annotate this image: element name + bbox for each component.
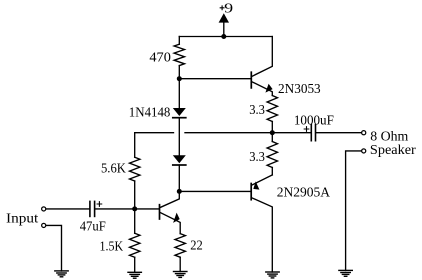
junction: supply tap xyxy=(221,34,226,39)
wire: C1 to node C xyxy=(95,208,134,210)
svg-text:9: 9 xyxy=(224,1,233,16)
node C (C1/5.6K/1.5K/Q2 base) xyxy=(132,206,137,211)
supply +9 xyxy=(219,1,234,36)
svg-text:47uF: 47uF xyxy=(80,220,106,235)
node: output (between 3.3s) xyxy=(270,130,275,135)
wire: D1 to D2 xyxy=(178,118,180,156)
wire: node B to Q3 base xyxy=(179,190,250,192)
svg-text:Input: Input xyxy=(6,211,38,226)
resistor R3 3.3 (lower) xyxy=(267,133,277,175)
resistor R6 22 xyxy=(175,234,185,272)
ground: R5 xyxy=(128,272,141,278)
wire: node C to Q2 base xyxy=(135,208,159,210)
wire: node A to Q1 base xyxy=(179,78,250,80)
transistor Q1 2N3053 xyxy=(251,37,272,96)
transistor Q3 2N2905A (PNP) xyxy=(251,175,272,272)
wire: input top to C1 xyxy=(46,208,89,210)
wire: input bottom to ground xyxy=(46,225,61,271)
wire: speaker return to ground xyxy=(346,151,362,271)
node B (diodes/Q2 collector/Q3 base) xyxy=(177,189,182,194)
svg-text:5.6K: 5.6K xyxy=(101,161,126,176)
wire: D2 to node B xyxy=(178,165,180,191)
terminal: 8 Ohm output xyxy=(362,131,366,135)
svg-text:Speaker: Speaker xyxy=(370,143,416,158)
svg-text:1000uF: 1000uF xyxy=(294,113,334,128)
svg-text:2N3053: 2N3053 xyxy=(278,82,321,97)
svg-text:2N2905A: 2N2905A xyxy=(277,185,331,200)
wire: bootstrap right segment to output node xyxy=(185,132,311,134)
resistor R1 470 xyxy=(174,37,184,79)
resistor R2 3.3 (upper) xyxy=(267,96,277,133)
wire: top supply rail xyxy=(179,36,272,38)
svg-text:22: 22 xyxy=(190,238,203,253)
resistor R5 1.5K xyxy=(130,209,140,272)
terminal: speaker return xyxy=(362,149,366,153)
diode D1 1N4148 xyxy=(173,108,186,118)
capacitor C1 47uF xyxy=(90,201,102,216)
svg-text:3.3: 3.3 xyxy=(249,150,265,165)
ground: R6 xyxy=(174,272,187,278)
node A (R1/D1/Q1 base) xyxy=(177,76,182,81)
svg-text:470: 470 xyxy=(149,50,171,65)
capacitor C2 1000uF xyxy=(304,125,361,141)
ground: input xyxy=(55,271,68,277)
svg-text:1.5K: 1.5K xyxy=(100,239,124,254)
ground: Q3 collector xyxy=(266,272,279,278)
diode D2 1N4148 xyxy=(173,155,186,165)
terminal: input bottom xyxy=(42,223,46,227)
svg-text:1N4148: 1N4148 xyxy=(129,106,171,121)
ground: speaker xyxy=(339,270,352,276)
svg-text:3.3: 3.3 xyxy=(249,103,265,118)
resistor R4 5.6K xyxy=(130,133,140,209)
wire: bootstrap left segment (5.6K top) xyxy=(135,132,174,134)
wire: node A down to D1 xyxy=(178,79,180,108)
terminal: input top xyxy=(42,207,46,211)
transistor Q2 (driver NPN) xyxy=(160,191,181,233)
